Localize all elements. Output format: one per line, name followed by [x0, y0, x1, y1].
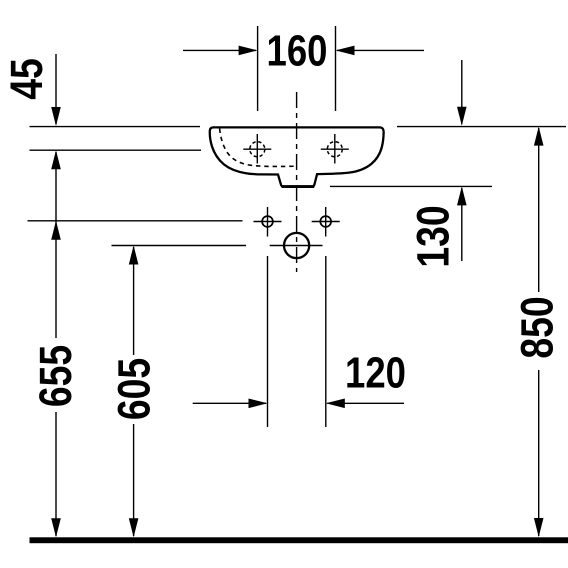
basin inner bowl dashed line [220, 129, 297, 167]
reference line drain center [112, 245, 247, 247]
dimension 120 extension left [267, 256, 269, 427]
reference line drain bottom [330, 185, 492, 187]
dimension 160 extension left [257, 26, 259, 111]
drain circle [270, 233, 323, 258]
reference line rim level left [30, 126, 201, 128]
dimension 130 lower arrow [461, 188, 463, 261]
svg-text:850: 850 [512, 296, 562, 358]
svg-text:120: 120 [345, 347, 406, 397]
dimension 655 lower line [55, 412, 57, 536]
svg-text:45: 45 [2, 58, 52, 100]
dimension 160 extension right [335, 26, 337, 111]
reference line 45 lower [30, 149, 202, 151]
svg-text:605: 605 [109, 358, 159, 420]
left faucet hole marker [243, 134, 271, 164]
dimension 160 right arrow [337, 49, 424, 51]
reference line mounting holes [28, 220, 243, 222]
dimension 130 upper arrow [461, 60, 463, 124]
dimension 120 extension right [325, 256, 327, 427]
svg-text:655: 655 [31, 345, 81, 407]
right mounting hole [312, 207, 340, 237]
dimension 120 right arrow [327, 402, 404, 404]
dimension 45 lower arrow [55, 152, 57, 338]
reference line rim level right [397, 126, 566, 128]
drain fitting bottom edge [282, 185, 315, 188]
svg-text:130: 130 [408, 205, 458, 267]
left mounting hole [254, 207, 282, 237]
dimension 850 line upper [538, 128, 540, 292]
right faucet hole marker [321, 134, 349, 164]
dimension 120 left arrow [193, 402, 266, 404]
dimension 605 line lower [133, 424, 135, 536]
dimension 655 upper arrow [51, 221, 61, 240]
svg-text:160: 160 [267, 25, 328, 75]
dimension 850 line lower [538, 370, 540, 536]
dimension 160 left arrow [183, 49, 256, 51]
dimension 45 upper arrow [55, 54, 57, 124]
floor line [30, 537, 568, 543]
vertical centerline [296, 92, 298, 272]
basin outline [210, 127, 384, 186]
dimension 605 line upper [133, 247, 135, 355]
